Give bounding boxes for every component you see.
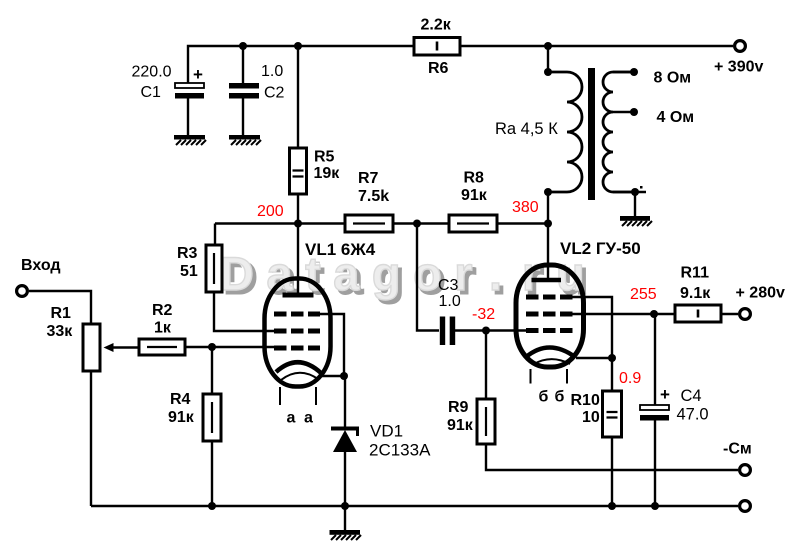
wire node 200 horizontal line (215, 222, 548, 224)
svg-text:б: б (555, 389, 565, 406)
svg-text:R9: R9 (448, 399, 469, 416)
svg-text:C1: C1 (141, 84, 162, 101)
resistor R11 (675, 305, 721, 322)
svg-text:0.9: 0.9 (619, 370, 641, 387)
svg-text:C4: C4 (681, 387, 702, 405)
resistor R9 (477, 399, 495, 444)
transformer core (588, 68, 595, 200)
node 380 junction (VL2 anode) (544, 220, 552, 228)
VL1 grid g2 row (274, 329, 320, 334)
node 255 junction (C4-R11) (650, 310, 658, 318)
svg-text:51: 51 (180, 263, 198, 280)
wire transformer primary feed (547, 46, 549, 72)
VL2 heater arc (533, 359, 570, 364)
junction C4 on bottom rail (651, 502, 659, 510)
junction secondary bottom (631, 188, 639, 196)
svg-text:Ra 4,5 К: Ra 4,5 К (495, 120, 558, 138)
wire R3 bottom to VL1 g2 (214, 292, 276, 331)
transformer Ra secondary winding (603, 72, 634, 192)
svg-text:+: + (193, 65, 203, 84)
wire R1 bottom leg (90, 371, 92, 506)
svg-text:10: 10 (582, 409, 600, 426)
junction VD1-ground on bottom rail (341, 502, 349, 510)
junction VL1 cathode - VD1 (340, 372, 348, 380)
VL2 heater legs (531, 369, 568, 384)
resistor R7 (345, 215, 393, 232)
junction R5 on top rail (294, 42, 302, 50)
svg-text:а: а (304, 410, 313, 427)
wire VL1 anode lead (297, 224, 299, 295)
wire R9 bottom to -Cm terminal (486, 444, 738, 470)
junction R10 on bottom rail (608, 502, 616, 510)
svg-text:R4: R4 (170, 391, 191, 408)
ground under C2 (229, 135, 261, 145)
wire C4 bottom to rail (654, 420, 656, 506)
transformer Ra primary winding (548, 72, 582, 192)
svg-text:1.0: 1.0 (261, 63, 283, 80)
terminal +390v (735, 41, 746, 52)
VL1 heater legs (280, 387, 316, 405)
node -32 junction (C3-R9-VL2 g1) (482, 327, 490, 335)
wire VD1 top lead (344, 376, 346, 428)
wire R1 wiper arrow line (110, 346, 139, 348)
wire C1 ground lead (187, 98, 189, 135)
svg-text:R2: R2 (152, 302, 173, 319)
VL1 cathode arc (276, 362, 321, 373)
svg-text:R11: R11 (681, 265, 710, 282)
wire VL1 g3 to cathode junction (320, 314, 344, 376)
svg-text:-См: -См (723, 441, 752, 458)
svg-text:R8: R8 (464, 170, 485, 187)
svg-text:C3: C3 (438, 277, 459, 294)
junction transformer feed on top rail (544, 42, 552, 50)
wire C3 to VL2 g1 (455, 329, 528, 331)
wire secondary 8 Om tap (613, 71, 634, 73)
wire R5 top lead (297, 46, 299, 148)
wire VL2 g3 (570, 297, 612, 358)
capacitor C3 (440, 317, 455, 346)
wire input to R1 (29, 291, 91, 324)
ground at bottom rail (330, 530, 362, 540)
VL2 grid g2 row (526, 312, 573, 317)
svg-text:.: . (489, 247, 502, 300)
terminal -Cm (740, 465, 751, 476)
svg-text:а: а (287, 410, 296, 427)
svg-text:VL2 ГУ-50: VL2 ГУ-50 (560, 239, 641, 258)
wire junction to C3 (417, 224, 439, 331)
wire secondary bottom to ground (613, 192, 646, 216)
ground under C1 (174, 135, 206, 145)
wire R5 bottom lead to node 200 (297, 194, 299, 224)
resistor R8 (449, 215, 497, 232)
VL1 grid g3 row (274, 312, 320, 317)
resistor R6 (414, 38, 460, 56)
svg-text:VD1: VD1 (370, 422, 403, 441)
svg-text:91к: 91к (168, 409, 195, 426)
svg-text:+ 390v: + 390v (714, 59, 763, 76)
terminal +280v (740, 309, 751, 320)
wire secondary 4 Om tap (613, 111, 634, 113)
svg-text:R6: R6 (428, 60, 449, 77)
svg-text:1.0: 1.0 (439, 293, 461, 310)
wire R10 top lead (611, 358, 613, 391)
VL2 grid g1 row (526, 328, 573, 333)
svg-text:4 Ом: 4 Ом (657, 109, 695, 126)
capacitor C1 (175, 83, 204, 99)
VL2 anode plate (532, 278, 562, 283)
resistor R4 (203, 394, 221, 441)
junction C2 on top rail (239, 42, 247, 50)
svg-text:R5: R5 (314, 149, 335, 166)
svg-text:2С133А: 2С133А (369, 441, 431, 460)
svg-text:1к: 1к (154, 320, 172, 337)
svg-text:9.1к: 9.1к (680, 285, 711, 302)
svg-text:C2: C2 (264, 85, 285, 102)
zener diode VD1 (331, 429, 359, 453)
resistor R2 (139, 339, 185, 355)
junction VL2 cathode-g3-R10 (608, 354, 616, 362)
VL1 grid g1 row (274, 346, 320, 351)
node 200 junction (VL1 anode) (294, 220, 302, 228)
wire C2 ground lead (242, 98, 244, 135)
VL1 anode plate (283, 293, 314, 298)
resistor R10 (603, 391, 622, 437)
wire rail ground stub (344, 506, 346, 530)
svg-text:47.0: 47.0 (677, 406, 709, 424)
svg-text:200: 200 (257, 203, 284, 220)
wire R11 to +280v terminal (721, 313, 738, 315)
svg-text:R3: R3 (177, 245, 198, 262)
svg-text:220.0: 220.0 (132, 64, 172, 81)
svg-text:VL1 6Ж4: VL1 6Ж4 (305, 240, 376, 259)
svg-text:R7: R7 (358, 170, 379, 187)
svg-text:33к: 33к (47, 323, 74, 340)
wire R4 bottom lead (211, 441, 213, 506)
svg-text:R10: R10 (571, 392, 600, 409)
wire VD1 bottom to rail (344, 450, 346, 506)
wire bottom ground rail (91, 505, 738, 507)
svg-text:+ 280v: + 280v (736, 285, 785, 302)
VL2 grid g3 row (526, 295, 573, 300)
tube VL2 envelope (516, 265, 584, 367)
ground under transformer secondary (620, 216, 652, 226)
svg-text:R1: R1 (51, 305, 72, 322)
wire VL1 cathode lead (322, 375, 344, 377)
wire R9 top lead (485, 331, 487, 400)
wire primary bottom to VL2 anode (547, 192, 549, 278)
junction R2-R4-VL1 g1 (208, 343, 216, 351)
junction primary top (544, 68, 552, 76)
wire VL2 g2 to 255 line and R11 (570, 313, 675, 315)
svg-text:2.2к: 2.2к (421, 17, 452, 34)
watermark Datagor.ru (219, 246, 589, 304)
wire R2 right to VL1 g1 (185, 346, 276, 348)
svg-text:19к: 19к (314, 165, 341, 182)
resistor R5 (290, 148, 307, 194)
junction R7-R8-C3 (413, 220, 421, 228)
svg-text:7.5k: 7.5k (358, 188, 389, 205)
wire C4 top lead (654, 314, 656, 405)
wire C2 drop (242, 46, 244, 83)
capacitor C4 (640, 405, 669, 421)
svg-text:8 Ом: 8 Ом (654, 70, 692, 87)
capacitor C2 (229, 83, 259, 99)
resistor R3 (206, 245, 222, 292)
svg-text:91к: 91к (447, 417, 474, 434)
VL1 heater arc (281, 373, 318, 380)
wire VL2 cathode lead (576, 357, 612, 359)
junction primary bottom (544, 188, 552, 196)
svg-text:255: 255 (630, 286, 657, 303)
wire R10 bottom to rail (611, 437, 613, 506)
junction secondary 8 Om tap (630, 68, 638, 76)
wire R4 top lead (211, 347, 213, 394)
svg-text:б: б (539, 389, 549, 406)
wire top rail (188, 46, 733, 83)
svg-text:91к: 91к (461, 187, 488, 204)
svg-text:+: + (660, 385, 670, 404)
tube VL1 envelope (265, 279, 331, 387)
svg-text:-32: -32 (472, 306, 495, 323)
junction secondary 4 Om tap (630, 108, 638, 116)
stray dot artifact (640, 186, 643, 189)
terminal input (17, 286, 28, 297)
wire R3 top lead (214, 224, 216, 246)
junction R4 on bottom rail (208, 502, 216, 510)
svg-text:Вход: Вход (21, 257, 61, 274)
terminal bottom (740, 501, 751, 512)
VL2 cathode arc (526, 348, 575, 358)
svg-text:380: 380 (512, 199, 539, 216)
potentiometer R1 (83, 324, 114, 371)
